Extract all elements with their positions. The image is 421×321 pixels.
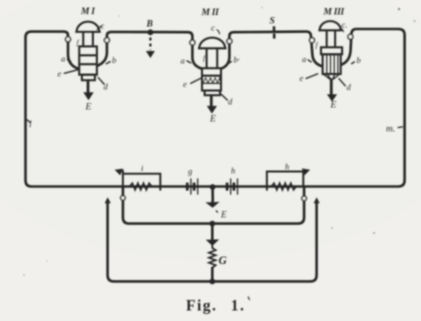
svg-text:S: S: [270, 17, 275, 27]
svg-text:g: g: [188, 166, 192, 176]
svg-text:M II: M II: [201, 8, 220, 18]
svg-text:c: c: [101, 21, 105, 31]
svg-text:M I: M I: [80, 7, 95, 17]
svg-text:a: a: [302, 54, 306, 64]
svg-text:M III: M III: [323, 7, 345, 17]
svg-text:b: b: [112, 55, 116, 65]
svg-text:G: G: [219, 255, 228, 267]
svg-text:c.: c.: [342, 20, 348, 30]
svg-text:B: B: [146, 20, 153, 30]
svg-text:b·: b·: [234, 55, 240, 65]
svg-text:E: E: [330, 101, 337, 111]
svg-text:e: e: [300, 73, 304, 83]
svg-text:c: c: [211, 23, 215, 33]
svg-text:E: E: [220, 210, 227, 220]
svg-text:h: h: [285, 162, 289, 172]
svg-text:e: e: [183, 79, 187, 89]
svg-text:m.: m.: [386, 125, 395, 135]
svg-text:h: h: [231, 166, 235, 176]
svg-text:E: E: [85, 103, 92, 113]
svg-text:a: a: [181, 56, 185, 66]
svg-text:Fig. 1.: Fig. 1.: [186, 298, 245, 315]
svg-text:E: E: [209, 115, 216, 125]
svg-text:e: e: [58, 69, 62, 79]
svg-text:a: a: [61, 54, 65, 64]
svg-text:b: b: [357, 55, 361, 65]
